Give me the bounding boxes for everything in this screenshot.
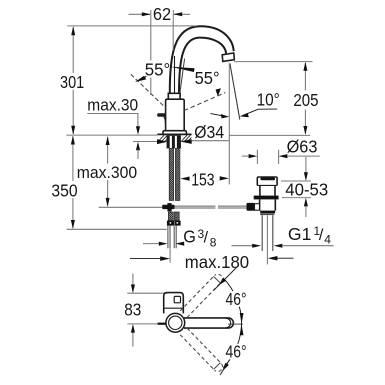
svg-text:Ø34: Ø34 <box>194 122 224 142</box>
label G1 1/4 <box>288 224 331 247</box>
label Ø34 <box>193 122 226 142</box>
extension line at outlet height <box>234 61 313 63</box>
label 153 <box>190 169 216 189</box>
dimension 40-53 <box>281 157 311 217</box>
top view: handle <box>164 293 184 314</box>
label 205 <box>291 90 320 110</box>
lever handle side view <box>157 113 166 123</box>
label 62 <box>152 4 173 24</box>
bottom extension line for 350 <box>67 228 167 230</box>
top view: axis stub left <box>158 323 166 325</box>
dimension G3/8 arrows <box>143 242 184 246</box>
faucet body <box>166 99 185 130</box>
water stream line 10 deg <box>230 63 240 119</box>
mounting shank dark block <box>167 135 181 148</box>
pull rod cross fitting <box>162 203 174 211</box>
svg-text:4: 4 <box>324 232 331 246</box>
faucet spout gooseneck <box>170 26 234 93</box>
faucet riser neck <box>168 93 180 99</box>
label max.30 with leader <box>87 97 140 159</box>
svg-text:153: 153 <box>191 169 214 189</box>
dimension arrows for shank hole Ø34 <box>157 139 229 144</box>
svg-text:max.180: max.180 <box>185 252 250 272</box>
top view: dashed swivel capsule upper <box>180 274 222 317</box>
deck line left <box>66 134 157 136</box>
spout aerator nozzle <box>222 53 234 61</box>
svg-text:G: G <box>183 227 196 247</box>
arrow pair at 10 deg gap <box>211 109 278 118</box>
label 301 <box>59 72 86 92</box>
G3/8 threaded stubs <box>168 226 176 249</box>
svg-text:55°: 55° <box>195 68 220 88</box>
svg-text:46°: 46° <box>226 342 247 362</box>
top view: 83 dimension <box>127 274 167 347</box>
svg-text:/: / <box>319 227 324 244</box>
swivel arc end arrows at spout axis <box>240 313 244 335</box>
dimension G1 1/4 arrows at tailpipe <box>232 244 334 248</box>
dimension Ø63 <box>242 150 320 164</box>
dimension 205 <box>303 62 307 135</box>
label G3/8 <box>183 227 217 250</box>
tilted axis line T2 <box>180 59 185 93</box>
supply hoses braided <box>169 149 180 201</box>
deck slab bottom line <box>133 141 157 143</box>
label 46 deg lower <box>224 342 248 362</box>
svg-text:350: 350 <box>51 180 77 200</box>
label 350 <box>50 180 78 200</box>
vertical reference line from spout outlet <box>228 63 230 184</box>
deck slab top under faucet <box>157 133 191 135</box>
dimension max.300 <box>106 136 110 207</box>
swivel arc upper 46 deg <box>214 268 242 323</box>
svg-text:G1: G1 <box>288 224 312 244</box>
svg-text:55°: 55° <box>145 59 171 79</box>
svg-text:301: 301 <box>60 72 84 92</box>
label max.300 <box>76 164 138 182</box>
top view: dashed swivel capsule lower <box>180 328 222 371</box>
svg-text:40-53: 40-53 <box>285 180 328 200</box>
drain flange <box>257 177 277 196</box>
label 46 deg upper <box>224 289 248 309</box>
label 40-53 <box>284 180 330 200</box>
leader arrow 55 deg right <box>170 67 195 72</box>
lever open position line L2 <box>184 88 225 110</box>
drain tailpipe <box>262 215 273 264</box>
svg-text:Ø63: Ø63 <box>287 136 318 156</box>
extension line faucet axis down <box>169 248 171 262</box>
svg-text:205: 205 <box>293 90 318 110</box>
swivel arc lower 46 deg <box>214 323 242 375</box>
top view: spout capsule <box>184 318 233 328</box>
svg-text:62: 62 <box>153 4 171 24</box>
top extension line at spout peak <box>67 25 196 27</box>
svg-text:46°: 46° <box>226 289 247 309</box>
dimension max.180 <box>130 256 294 261</box>
dimension 350 <box>71 136 75 230</box>
drain rod joint knob <box>247 203 260 211</box>
slab hatching left <box>158 135 167 141</box>
extension line to hose connector level <box>99 206 163 208</box>
dashed lever tilt line 55 deg left <box>131 74 166 108</box>
top view: body circle <box>166 313 185 332</box>
deck line right <box>229 134 310 136</box>
dimension 62 <box>129 10 191 95</box>
svg-text:10°: 10° <box>257 90 280 110</box>
leader arrow 55 deg left <box>135 76 146 82</box>
svg-text:83: 83 <box>124 299 141 319</box>
slab hatching right <box>182 135 192 141</box>
drain rubber washer <box>254 196 279 200</box>
svg-text:8: 8 <box>210 235 217 249</box>
drain locknut band <box>260 211 275 215</box>
faucet base flare <box>163 131 186 135</box>
label 83 <box>123 299 143 319</box>
dimension 153 spout projection <box>180 176 229 181</box>
drain pop-up plug cap <box>260 177 275 180</box>
svg-text:max.30: max.30 <box>87 97 138 115</box>
svg-text:max.300: max.300 <box>77 164 137 182</box>
hose connector nuts <box>167 221 181 226</box>
horizontal pop-up rod <box>175 206 252 208</box>
dimension 301 <box>71 26 75 135</box>
top view: axis line through capsule end <box>228 323 243 325</box>
svg-text:/: / <box>204 230 209 247</box>
drain valve body <box>260 199 276 210</box>
hose lower stubs braided <box>168 212 179 221</box>
